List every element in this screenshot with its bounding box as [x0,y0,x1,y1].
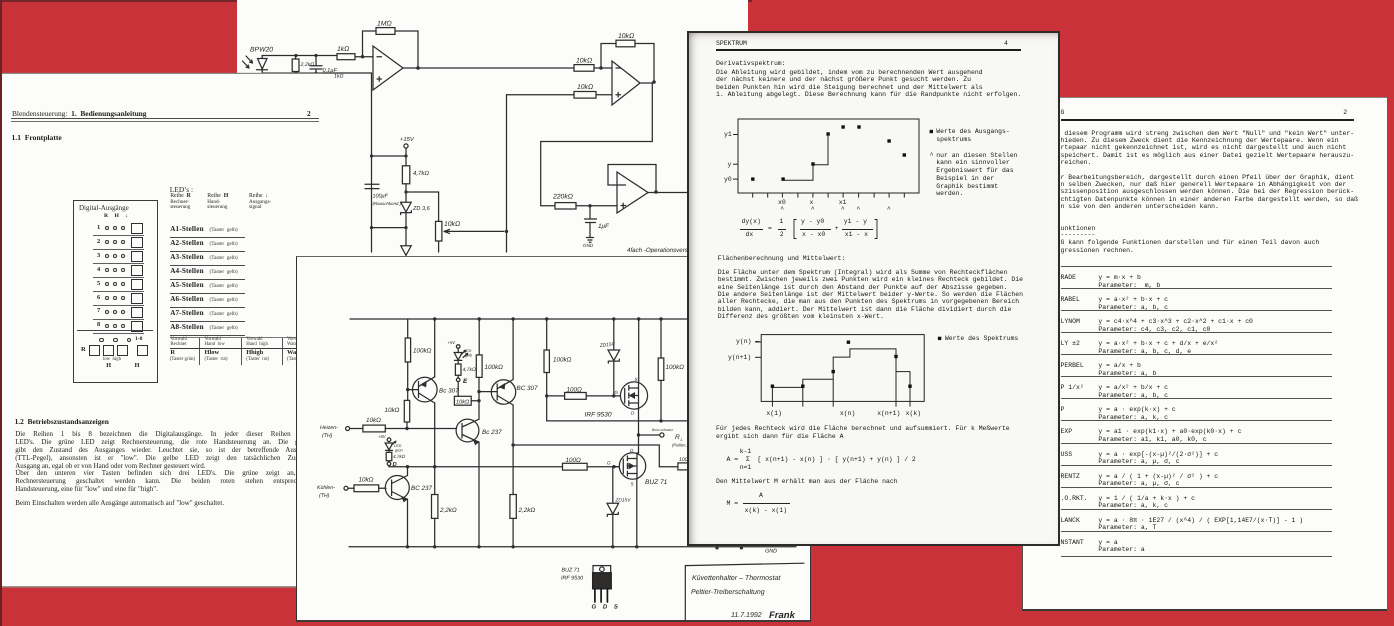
svg-text:S: S [635,377,639,382]
PAGE A : top schematic (op-amps), x 237-748, y 0-256 [237,0,748,256]
PAGE B : Bedienungsanleitung doc, x 2-322, y 74-587 [2,74,322,586]
svg-text:D: D [631,411,635,416]
resistor 100kΩ r5 [476,319,482,377]
zener ZD15V z2 [607,467,619,547]
label Heizen [320,425,338,439]
svg-text:GND: GND [765,549,777,555]
svg-text:LED: LED [464,349,472,353]
feedback wire + resistor 1MΩ [363,28,419,68]
svg-text:1MΩ: 1MΩ [377,21,392,28]
resistor 220kΩ [555,203,617,209]
svg-text:grün: grün [395,449,403,453]
svg-text:100Ω: 100Ω [566,457,582,464]
wire net drain (y188) [513,445,678,467]
svg-text:E: E [463,378,468,385]
emitter wire Q4 [407,500,409,547]
zener ZD15V z1 [608,319,620,396]
label BUZ71 IRF9530 package [561,568,583,582]
emitter wire Q3 to rail [512,319,514,380]
op-amp U3 [617,172,648,213]
svg-text:BUZ 71: BUZ 71 [562,568,580,574]
label LED gruen [394,444,403,453]
svg-text:R: R [675,434,680,441]
svg-text:BC 307: BC 307 [517,385,539,392]
gate wire + resistor 100Ω r13 [547,393,621,400]
left vertical rail [371,73,373,252]
PAGE E : functions table page, x 1022-1387, y 97-611 [1022,97,1387,611]
svg-text:(Rauschkond.): (Rauschkond.) [373,201,402,206]
source wire BUZ71 [636,479,638,547]
svg-text:Bc 307: Bc 307 [439,388,459,395]
junction dots rail [433,317,436,320]
svg-text:2,2kΩ: 2,2kΩ [518,507,536,514]
steps [783,166,813,181]
svg-text:1kΩ: 1kΩ [334,74,343,80]
svg-text:+5V: +5V [378,434,387,439]
svg-text:10kΩ: 10kΩ [444,221,460,228]
MOSFET U1 IRF9530 [620,382,647,409]
formula 3 [759,492,763,499]
diode (cut by page below) [401,246,411,256]
svg-text:100kΩ: 100kΩ [666,364,685,371]
svg-text:+5V: +5V [448,340,457,345]
collector wire Q4 [407,467,409,476]
svg-text:Kühlen-: Kühlen- [317,485,335,491]
svg-text:Bei w. schwarz: Bei w. schwarz [652,428,673,432]
svg-text:ZD 3,6: ZD 3,6 [412,206,431,212]
drain wire BUZ71 [637,452,639,454]
transistor Q2 BC237 [456,419,479,444]
collector net Q2 [478,377,480,546]
svg-text:G: G [615,390,619,395]
resistor 100Ω r9 (clipped) [678,463,692,470]
svg-text:2,2kΩ: 2,2kΩ [300,62,315,68]
svg-text:ZD15V: ZD15V [615,498,632,504]
svg-text:IRF 9530: IRF 9530 [585,412,612,419]
U3 output [648,192,689,194]
resistor 100kΩ r1 [405,319,410,400]
svg-text:100kΩ: 100kΩ [485,364,504,371]
Vorwahl mini table [170,336,302,339]
supply rail (top) [350,318,797,320]
output wire U1 [403,67,574,69]
terminal D [387,462,391,467]
gate stub BUZ71 [613,466,620,468]
resistor 10kΩ (to U2 inv input) [574,65,612,72]
collector net Q3 [512,405,514,495]
svg-text:100Ω: 100Ω [567,387,583,394]
junction dots [294,54,297,57]
collector wire Q1 [434,319,436,495]
title box frame [685,563,804,620]
svg-text:Heizen-: Heizen- [320,425,338,431]
zener ZD 3,6 [401,192,412,228]
formula 1 [742,218,761,225]
svg-text:10kΩ: 10kΩ [366,417,381,424]
resistor 10kΩ r12 [354,485,386,492]
svg-text:(Peltier..: (Peltier.. [672,443,687,448]
svg-text:gelb: gelb [465,354,472,358]
ground wire (bottom) [262,72,371,74]
header line [12,109,147,118]
section 1.2 [15,417,109,426]
potentiometer 10kΩ with wiper [436,192,505,252]
svg-text:G D S: G D S [592,604,621,611]
svg-text:10kΩ: 10kΩ [456,399,470,406]
label RL Anschluss [652,428,687,448]
label Kühlen [317,485,335,499]
resistor 1kΩ [337,54,355,60]
svg-text:BPW20: BPW20 [250,47,273,54]
wire to op-amp inverting input [355,56,373,58]
svg-text:GND: GND [583,243,594,248]
drain wire down [638,409,640,453]
non-inv input chain U2: wire + resistor 10kΩ [507,92,613,99]
svg-text:4,7kΩ: 4,7kΩ [393,454,406,459]
svg-text:BUZ 71: BUZ 71 [645,479,668,486]
svg-text:1μF: 1μF [598,223,610,230]
LED chain D: +5V [387,438,391,443]
svg-text:10kΩ: 10kΩ [577,84,593,91]
svg-text:S: S [631,482,635,487]
svg-text:2,2kΩ: 2,2kΩ [439,507,457,514]
svg-text:1kΩ: 1kΩ [337,46,349,53]
resistor 100kΩ r14 [544,319,549,421]
svg-text:10kΩ: 10kΩ [359,477,374,484]
dark left edge strip [0,0,2,626]
input Heizen (TH) [346,427,363,431]
net y164 [547,420,691,422]
x ticks [752,193,754,198]
LED's legend [170,185,193,194]
vertical net at x269 [506,95,508,252]
svg-text:4fach -Operationsverst: 4fach -Operationsverst [627,247,690,254]
junction dots misc [406,388,409,391]
svg-text:IRF 9530: IRF 9530 [561,576,583,582]
op-amp U1 [373,46,403,90]
source wire to rail [638,319,640,382]
capacitor 100µF [365,184,379,188]
resistor 4,7kΩ r6 [455,360,461,378]
svg-text:Bc 237: Bc 237 [482,429,502,436]
resistor 10kΩ r7 [454,396,479,405]
svg-text:10kΩ: 10kΩ [618,33,634,40]
resistor 4,7kΩ r10 [386,450,392,462]
svg-text:100μF: 100μF [373,194,389,200]
transistor Q3 BC307 [479,380,516,406]
Digital-Ausgänge box [73,200,158,383]
MOSFET U2 BUZ71 [619,453,645,479]
TO-220 package drawing [593,566,612,602]
svg-text:(TH): (TH) [319,493,330,499]
resistor 100Ω r11 [563,463,588,470]
resistor 10kΩ r4 [363,425,457,432]
resistor 2,2kΩ r8 [510,495,516,547]
svg-text:+15V: +15V [400,137,415,143]
LED chain E: +5V [456,345,460,353]
rows 1-8 generated [97,224,100,231]
capacitor 0,1µF [310,56,322,74]
svg-text:Peltier-Treiberschaltung: Peltier-Treiberschaltung [691,588,765,596]
chart 2 [689,33,1062,548]
resistor 100kΩ r15 [658,319,664,421]
svg-text:10kΩ: 10kΩ [385,407,400,414]
transistor Q1 BC307 [408,377,437,403]
svg-text:BC 237: BC 237 [411,485,433,492]
resistor 4,7kΩ [402,156,438,192]
terminal E [456,378,460,396]
feedback resistor 10kΩ U2 [601,40,654,82]
svg-text:LED: LED [394,444,402,448]
svg-text:4,7kΩ: 4,7kΩ [463,367,476,373]
ground rail (bottom) [349,546,796,548]
feedback wire U3 [608,165,656,193]
input Kühlen (TH) [344,486,354,490]
photodiode BPW20 [243,56,268,72]
svg-text:100kΩ: 100kΩ [553,357,572,364]
svg-text:Frank: Frank [769,610,796,621]
svg-text:10kΩ: 10kΩ [576,58,592,65]
wire zener to left rail [372,228,406,245]
PAGE C : transistor schematic, x 296-811, y 256-622 [296,256,811,622]
svg-text:Küvettenhalter – Thermostat: Küvettenhalter – Thermostat [692,574,781,582]
LED gelb [454,351,467,361]
dark top edge line [0,0,752,2]
LED gruen [385,441,396,450]
svg-text:220kΩ: 220kΩ [552,194,573,201]
A1-A8 rows generated [170,225,204,233]
+15V supply [372,144,408,156]
svg-text:4,7kΩ: 4,7kΩ [413,170,429,177]
load terminal RL [639,433,665,437]
resistor 10kΩ r2 [404,400,409,428]
capacitor 1µF [585,206,597,243]
gate wire net (y210) [389,466,619,468]
PAGE D : SPEKTRUM page (on top), x 687-1060, y 31-546 [687,31,1060,546]
U2 output routing down-left [541,83,654,206]
label LED gelb [464,349,472,358]
wire photodiode top to R 1k [262,55,337,57]
svg-text:(TH): (TH) [322,433,333,439]
svg-text:L: L [681,437,683,442]
resistor 2,2kΩ r3 [432,495,438,547]
svg-text:G: G [607,461,611,466]
junction dots ground rail [406,545,409,548]
chart 1 [689,33,1062,548]
formula 2 [740,448,752,455]
svg-text:11.7.1992: 11.7.1992 [731,612,762,619]
svg-text:100kΩ: 100kΩ [413,348,432,355]
op-amp U2 [612,61,640,105]
transistor Q4 BC237 [385,476,409,502]
resistor 2,2kΩ [292,56,299,74]
